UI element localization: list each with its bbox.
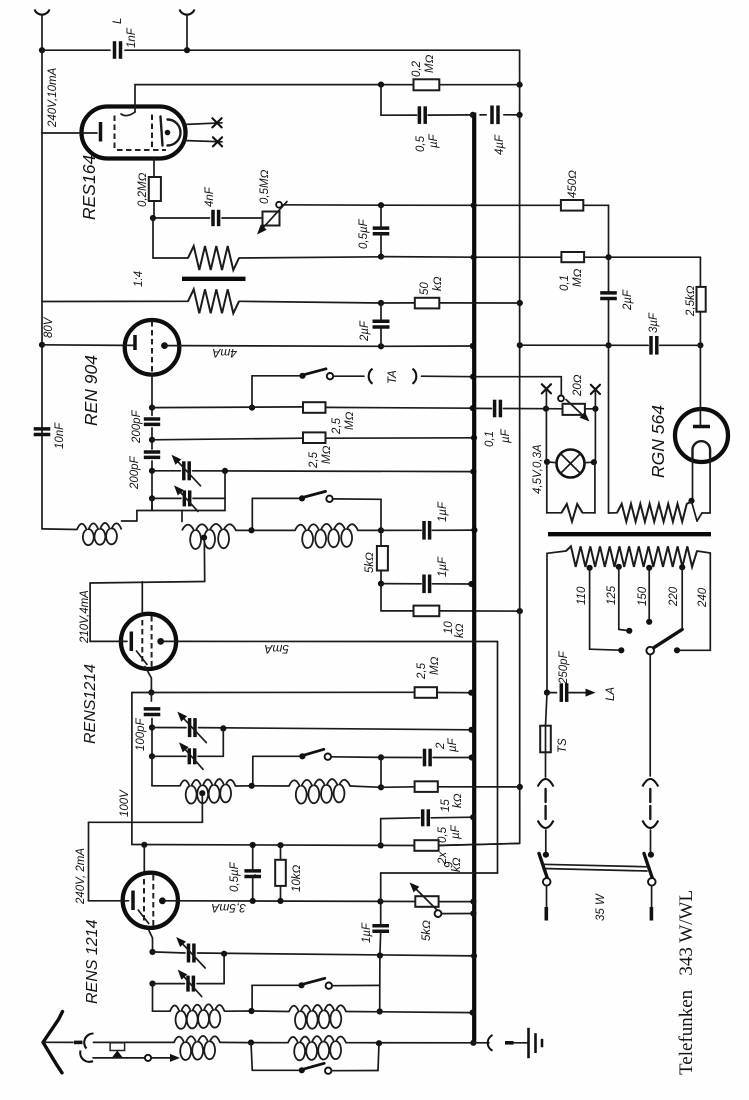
wire RES164 heater lead upper (184, 123, 222, 125)
wire coil row cap seg (381, 529, 474, 531)
winding AFtrafo secondary zigzag (188, 289, 239, 313)
wire RGN fil left leg (692, 461, 694, 500)
resistor 0,2M&#937; horizontal (414, 79, 440, 90)
wire t3 x224 link (223, 954, 225, 984)
wire S2 right (331, 756, 381, 759)
svg-text:µF: µF (447, 737, 459, 752)
potentiometer 20&#937; body (563, 404, 585, 415)
wire row787 to x520 (438, 786, 520, 788)
node x520 r115 (517, 112, 523, 118)
node t3 rowB j (149, 981, 155, 987)
svg-text:MΩ: MΩ (321, 445, 333, 464)
resistor 450&#937; (561, 200, 583, 211)
node junction at second antenna (184, 47, 190, 53)
electrode RES164 grid1 dashed (114, 116, 116, 149)
node grid-cap junction (150, 215, 156, 221)
svg-text:RGN 564: RGN 564 (648, 405, 668, 478)
wire 05uF stubs (380, 205, 382, 228)
svg-text:RENS1214: RENS1214 (82, 664, 99, 744)
node row845 x144 (141, 842, 147, 848)
svg-text:2µF: 2µF (359, 320, 371, 342)
svg-text:2,5: 2,5 (308, 451, 320, 469)
electrode REN904 grid dashed (151, 321, 153, 374)
electrode RES164 grid2 dashed (151, 115, 153, 149)
wire heater winding riser (608, 345, 610, 513)
trimmer cap C-t2b (188, 748, 192, 764)
wire RES164 cathode lead (42, 132, 97, 134)
switch S2 (299, 753, 305, 759)
wire to TS (546, 693, 548, 726)
electrode tube2 cathode (130, 632, 134, 652)
resistor 0,2M&#937; vertical (149, 177, 161, 201)
svg-text:2µF: 2µF (622, 289, 634, 311)
svg-text:2,5: 2,5 (331, 417, 343, 435)
svg-text:80V: 80V (43, 316, 55, 338)
wire row303 to x520 (439, 302, 520, 304)
wire 2k5 to row345 (699, 312, 701, 346)
svg-text:kΩ: kΩ (451, 857, 463, 872)
node TA bus (470, 374, 476, 380)
tube REN904 envelope (125, 320, 180, 375)
potentiometer 0,5M&#937; arrow (264, 202, 287, 228)
node t2 rowA x223 (220, 725, 226, 731)
jack ground cup (488, 1035, 493, 1051)
wire left supply drop x=42 (41, 50, 43, 133)
node row408 x595 (592, 406, 598, 412)
node 250p junction (544, 690, 550, 696)
wire primary to right (239, 257, 381, 258)
wire t3 rowB (153, 983, 225, 985)
node 80V junction (39, 342, 45, 348)
node row257 x381 (378, 254, 384, 260)
resistor 2x9k&#937; (414, 840, 438, 851)
wire row408 to bus (326, 406, 473, 409)
switch S2 feed (253, 755, 303, 757)
wire L7 left (252, 1010, 290, 1013)
svg-text:0,5µF: 0,5µF (358, 218, 370, 249)
wire selector drop (649, 655, 651, 776)
svg-text:4µF: 4µF (494, 134, 506, 155)
node lamp left (544, 459, 550, 465)
wire 5k to row583 (380, 571, 382, 584)
svg-text:TA: TA (387, 370, 399, 384)
wire x42 down section (41, 133, 43, 529)
electrode RGN564 filament arch (692, 441, 710, 461)
switch mains right pole (648, 852, 654, 858)
node rowA bus end (470, 469, 476, 475)
node REN904 grid tie (161, 342, 168, 349)
node rowA x225 (222, 468, 228, 474)
wire mains lead left (546, 886, 548, 907)
svg-text:450Ω: 450Ω (567, 170, 579, 198)
node tube2 cathode j (148, 689, 154, 695)
wire S1 to x381 (333, 498, 381, 500)
wire RGN564 anode lead (699, 345, 701, 426)
electrode tube2 anode slant (137, 651, 148, 665)
svg-text:0,5µF: 0,5µF (229, 861, 241, 892)
connector right lower arc (642, 821, 658, 829)
potentiometer 20&#937; arrow (566, 400, 582, 415)
wire 2k5 drop (699, 257, 701, 287)
wire 80V row to tube (42, 344, 125, 347)
connector left lower arc (538, 821, 554, 829)
terminal X upper (212, 118, 221, 127)
wire wiper to bus (441, 913, 473, 915)
node t2 coil row x252 (249, 783, 255, 789)
winding RGN heater zigzag (617, 502, 692, 522)
node row303 x381 (378, 300, 384, 306)
inductor osc coil L4 (180, 779, 236, 804)
capacitor 0,5&#181;F top (418, 106, 422, 124)
terminal selector pivot (646, 647, 654, 655)
wire L9 left (251, 1042, 288, 1044)
capacitor 0,1&#181;F (493, 400, 497, 418)
terminal 20R wiper (558, 396, 564, 402)
wire row257 (381, 256, 474, 259)
wire primary right drop (697, 551, 710, 553)
node t3 rowA x224 (221, 951, 227, 957)
capacitor 250pF (560, 683, 564, 702)
svg-text:L: L (112, 18, 124, 24)
svg-text:110: 110 (576, 586, 588, 605)
wire t2 x152 to coil (151, 756, 153, 786)
wire row 510 jog (137, 510, 225, 512)
svg-text:4nF: 4nF (204, 186, 216, 207)
wire L5 left (252, 785, 289, 787)
wire x608 2uF (608, 257, 610, 293)
wire row901 to pot (380, 900, 415, 902)
svg-text:0,1: 0,1 (559, 275, 571, 291)
node L2 tap (201, 535, 207, 541)
electrode RES164 anode cup arc (168, 120, 181, 146)
capacitor 200pF lower (144, 450, 160, 454)
capacitor 1&#181;F row583 (422, 575, 426, 594)
terminal X lamp right (591, 385, 600, 394)
wire row408 right (476, 407, 547, 409)
capacitor 1&#181;F grid (372, 924, 389, 928)
node t2 rowA j (149, 724, 155, 730)
wire x497 drop (497, 642, 499, 874)
tap 110 wire (587, 565, 593, 571)
wire 450 corner (583, 204, 608, 206)
wire tube2 cath down (150, 693, 152, 702)
wire x252 TA drop (251, 376, 253, 408)
wire tube2 top lead (141, 582, 143, 615)
wire t2 x223 link (222, 728, 224, 756)
svg-text:0,2: 0,2 (411, 60, 423, 77)
svg-text:220: 220 (668, 586, 680, 607)
node RES164 anode tie (165, 130, 171, 136)
antenna terminal cup left (35, 10, 50, 15)
wire REN904 anode lead (167, 345, 179, 347)
potentiometer 5k&#937; body (415, 896, 438, 907)
trimmer cap C-t3a (187, 944, 191, 963)
svg-text:3,5mA: 3,5mA (211, 901, 246, 915)
wire x132 bypass (132, 692, 152, 694)
wire tube3 top lead (143, 845, 145, 873)
capacitor 1nF (113, 41, 117, 59)
jack TA left cup (369, 369, 373, 384)
wire row115 (381, 114, 520, 116)
wire ground pin (505, 1041, 514, 1045)
switch voltage selector lever (653, 629, 682, 648)
wire tube3 anode lead (165, 900, 178, 902)
svg-text:10kΩ: 10kΩ (291, 864, 303, 892)
svg-text:kΩ: kΩ (454, 623, 466, 638)
node row257 bus (471, 254, 477, 260)
wire TA to jack (333, 375, 364, 377)
wire 01M to x608 (584, 256, 608, 258)
wire row817 (381, 817, 473, 818)
electrode REN904 cathode (133, 335, 137, 350)
capacitor 0,5&#181;F mid (373, 226, 390, 230)
node bus row583 (468, 581, 474, 587)
node x520 r303 (517, 300, 523, 306)
wire L7 to bus (346, 1012, 473, 1013)
inductor tuning coil L2 (182, 524, 236, 549)
node t2 row787 x381 (378, 784, 384, 790)
wire L4 tap drop (201, 793, 203, 822)
node row757 bus (469, 754, 475, 760)
capacitor 0,5&#181;F cath (421, 809, 425, 826)
svg-text:Telefunken 343 W/WL: Telefunken 343 W/WL (676, 890, 697, 1075)
node anode row j1 (378, 343, 384, 349)
terminal 0,5M&#937; wiper (276, 202, 282, 208)
arrester box (110, 1043, 125, 1051)
wire wiper row y=205 (282, 204, 381, 206)
node fil tap (688, 498, 694, 504)
core AF transformer bar (182, 277, 246, 281)
node ant row x379 (376, 1040, 382, 1046)
resistor 50k&#937; (415, 298, 440, 309)
svg-text:µF: µF (428, 133, 440, 148)
electrode tube3 grid1 dashed (143, 879, 145, 922)
wire antenna cup left stem (41, 16, 43, 50)
node row845 x252 (250, 842, 256, 848)
wire L3 to junction (358, 529, 381, 531)
capacitor 0,5&#181;F sg (244, 869, 261, 873)
terminal X lower (213, 137, 222, 146)
resistor 2,5M&#937; r2 (303, 432, 326, 443)
wire x595 drop (594, 395, 596, 463)
node row257 x608 (605, 254, 611, 260)
wire RES164 heater lead lower (184, 141, 222, 142)
wire grid line x520 (439, 50, 520, 845)
electrode RES164 cathode bar (99, 122, 103, 142)
electrode tube3 cathode (131, 891, 135, 911)
capacitor 2&#181;F right (600, 291, 617, 295)
node rowA j (149, 468, 155, 474)
wire x381 2uF drop (380, 303, 382, 321)
svg-text:1:4: 1:4 (133, 271, 145, 287)
wire t2 rowB (152, 755, 223, 757)
wire lower branch (93, 1057, 145, 1059)
wire x381 link 757-787 (380, 757, 382, 787)
node t2 row757 x381 (378, 754, 384, 760)
node anode row bus end (470, 343, 476, 349)
svg-text:REN 904: REN 904 (81, 355, 101, 426)
wire row408 to pot (546, 408, 563, 410)
svg-text:150: 150 (637, 586, 649, 606)
wire lamp leads (547, 461, 557, 464)
connector left dashes (544, 789, 546, 802)
node junction top-left (39, 47, 45, 53)
wire row303 (381, 302, 415, 304)
resistor 2,5M&#937; r1 (303, 402, 326, 413)
resistor 10k&#937; vertical (275, 860, 286, 886)
switch S-TA (299, 373, 305, 379)
wire anode row 641 (176, 640, 497, 642)
node row692 bus (468, 690, 474, 696)
switch S4 feed (252, 1069, 301, 1071)
svg-text:240: 240 (697, 587, 709, 608)
wire L2 to j (236, 529, 295, 531)
wire TS to connector (545, 752, 547, 777)
electrode tube3 anode slant (138, 910, 149, 924)
core mains transformer bar (548, 532, 711, 536)
node bus top (470, 112, 476, 118)
wire row439 to bus (326, 437, 475, 439)
node tube3 cath j (149, 949, 155, 955)
electrode RES164 grid hook (121, 112, 135, 116)
wire row901 (178, 900, 380, 903)
wire conn right to switch (650, 830, 652, 855)
wire L2 tap drop (203, 538, 205, 582)
wire row845 to x520 (439, 843, 520, 845)
node row875a (251, 874, 253, 876)
wire pot to bus (439, 901, 474, 903)
svg-text:4mA: 4mA (212, 346, 237, 360)
wire below caps (151, 461, 153, 511)
svg-text:3µF: 3µF (648, 312, 660, 333)
wire RES164 anode to R (153, 159, 155, 178)
wire t3 x152 to coil (152, 984, 154, 1012)
inductor coil L9 (288, 1036, 346, 1061)
node bus row530 (471, 527, 477, 533)
node L4 tap (199, 790, 205, 796)
wire 10kv stubs (280, 845, 282, 860)
potentiometer 0,5M&#937; body (263, 212, 280, 226)
wire RES164 top-cap lead (134, 85, 136, 112)
svg-text:MΩ: MΩ (429, 656, 441, 675)
electrode tube2 grid1 dashed (141, 620, 143, 663)
svg-text:1nF: 1nF (126, 27, 138, 48)
wire x381 drop (380, 499, 382, 530)
node row439 bus (471, 435, 477, 441)
node tube2 anode tie (157, 638, 164, 645)
svg-text:1µF: 1µF (437, 556, 449, 577)
svg-text:5kΩ: 5kΩ (421, 920, 433, 941)
node t3 rowA x380 (377, 952, 383, 958)
switch S-TA feed (252, 375, 303, 377)
node row817 bus (470, 814, 476, 820)
wire row257 to 2k5 (609, 256, 701, 258)
resistor 0,1M&#937; (561, 252, 584, 262)
resistor 2,5M&#937; r3 (415, 687, 437, 698)
inductor coil L3 (295, 523, 358, 548)
tap 125 wire (616, 564, 622, 570)
node row1012 bus (470, 1010, 476, 1016)
wire antenna row (94, 1041, 175, 1043)
capacitor 4nF (211, 210, 215, 226)
svg-text:2: 2 (435, 742, 447, 750)
wire tube3 grid lead (89, 900, 129, 902)
wire anode row y=346 (179, 345, 381, 348)
node row901 x380 (377, 898, 383, 904)
wire R to node (153, 201, 155, 218)
lamp 4,5V body (557, 450, 585, 478)
wire L4 to j (236, 785, 252, 787)
resistor 10k&#937; horizontal (414, 606, 440, 617)
node ant row bus (470, 1040, 476, 1046)
wire S4 drop (251, 1043, 252, 1071)
svg-text:15: 15 (440, 799, 452, 812)
wire L5 to x381 (350, 786, 381, 787)
wire conn left to switch (545, 830, 547, 855)
potentiometer 5k&#937; arrow (417, 890, 437, 910)
svg-text:RENS 1214: RENS 1214 (84, 919, 101, 1004)
wire rowA y=471 (152, 470, 473, 473)
wire x381 to row611 (380, 584, 382, 611)
tube RENS1214b envelope (123, 873, 178, 928)
bus chassis vertical (472, 113, 476, 1044)
resistor 15k&#937; (415, 781, 438, 792)
node row84 x381 (378, 82, 384, 88)
wire RGN fil right leg (709, 461, 711, 513)
svg-text:1µF: 1µF (437, 501, 449, 522)
wire tube2 anode lead (164, 640, 176, 642)
svg-text:µF: µF (450, 824, 462, 839)
wire x152 stub (151, 498, 153, 510)
svg-text:240V,10mA: 240V,10mA (47, 67, 59, 128)
node row845 x280 (277, 842, 283, 848)
node 240 end (674, 647, 680, 653)
wire row873 (381, 872, 498, 874)
wire bus to ground jack (473, 1042, 489, 1044)
svg-text:µF: µF (500, 428, 512, 443)
svg-text:MΩ: MΩ (572, 268, 584, 287)
wire row875 labelcap (254, 874, 256, 876)
svg-text:TS: TS (557, 738, 569, 753)
connector right upper arc (642, 779, 658, 787)
wire S3 drop (251, 985, 253, 1011)
resistor 2,5k&#937; vertical (697, 287, 706, 312)
wire row345 right (520, 344, 701, 346)
svg-text:0,5MΩ: 0,5MΩ (259, 169, 271, 204)
svg-text:1µF: 1µF (361, 922, 373, 943)
node t2 rowB j (149, 753, 155, 759)
wire L9 to bus (346, 1042, 473, 1044)
switch mains coupling bar (543, 864, 647, 867)
terminal lower circle (145, 1055, 151, 1061)
wire lower arrow (151, 1057, 170, 1059)
node x520 r345 (517, 342, 523, 348)
wire row84 (135, 84, 414, 86)
wire t2 rowA (152, 728, 472, 730)
capacitor 2&#181;F cath (423, 749, 427, 767)
wire x381 link 817-845 (380, 819, 382, 846)
switch S3 feed (252, 984, 301, 986)
wire x225 link (224, 471, 226, 511)
svg-text:20Ω: 20Ω (572, 374, 584, 397)
electrode RGN564 anode bar (693, 425, 710, 429)
switch S1 feed (252, 497, 302, 499)
electrode tube2 grid2 dashed (151, 616, 153, 667)
node row205 bus (471, 202, 477, 208)
switch S3 (298, 982, 304, 988)
wire 250p stub (547, 692, 557, 694)
electrode tube3 grid2 dashed (152, 875, 154, 926)
